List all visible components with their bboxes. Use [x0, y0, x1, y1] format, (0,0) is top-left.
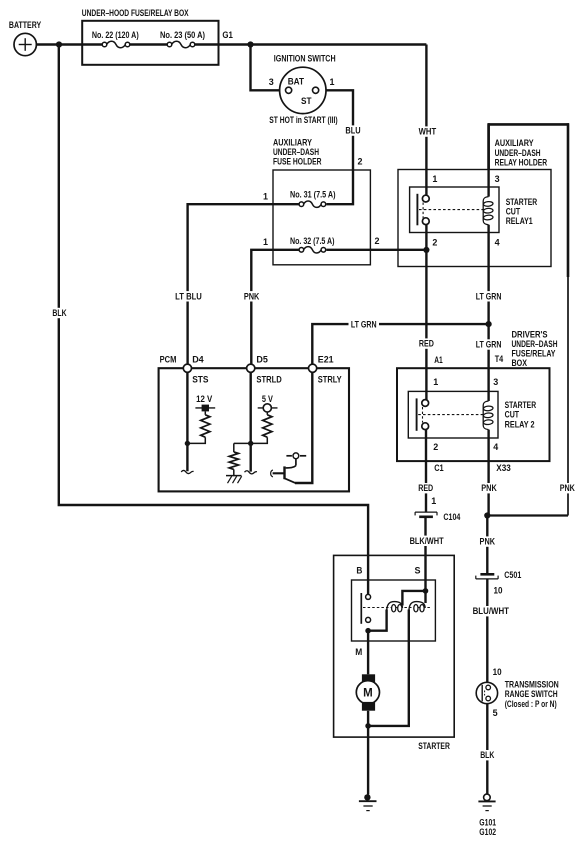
svg-text:PNK: PNK: [560, 483, 575, 494]
svg-text:X33: X33: [496, 463, 511, 474]
svg-text:RED: RED: [419, 339, 434, 350]
svg-text:D5: D5: [256, 354, 268, 365]
svg-text:PNK: PNK: [481, 483, 497, 494]
svg-text:1: 1: [263, 237, 269, 248]
svg-text:No. 22 (120 A): No. 22 (120 A): [92, 30, 139, 40]
svg-text:D4: D4: [192, 354, 204, 365]
svg-text:T4: T4: [495, 354, 504, 365]
svg-text:TRANSMISSION: TRANSMISSION: [505, 679, 559, 689]
svg-text:C501: C501: [504, 570, 521, 581]
svg-text:2: 2: [432, 238, 437, 249]
svg-text:2: 2: [358, 157, 363, 168]
svg-text:LT GRN: LT GRN: [476, 340, 502, 351]
svg-text:ST: ST: [301, 96, 312, 107]
svg-text:1: 1: [431, 496, 437, 507]
svg-text:BOX: BOX: [512, 358, 528, 369]
svg-text:M: M: [363, 688, 373, 700]
svg-text:M: M: [355, 647, 362, 658]
svg-text:ST HOT in START (III): ST HOT in START (III): [269, 115, 337, 126]
svg-text:UNDER–HOOD FUSE/RELAY BOX: UNDER–HOOD FUSE/RELAY BOX: [82, 8, 189, 19]
svg-text:2: 2: [375, 236, 380, 247]
svg-text:4: 4: [495, 238, 501, 249]
svg-text:12 V: 12 V: [196, 394, 213, 404]
svg-text:LT GRN: LT GRN: [476, 291, 502, 302]
svg-text:3: 3: [493, 377, 498, 388]
svg-text:G101: G101: [479, 817, 496, 827]
svg-text:E21: E21: [318, 354, 334, 365]
svg-text:3: 3: [269, 77, 274, 88]
svg-text:A1: A1: [434, 355, 443, 366]
svg-text:STRLD: STRLD: [256, 375, 281, 386]
svg-text:BAT: BAT: [288, 77, 304, 88]
svg-text:BLK: BLK: [480, 750, 494, 761]
svg-text:(Closed : P or N): (Closed : P or N): [505, 699, 557, 709]
svg-text:5: 5: [493, 708, 499, 719]
svg-text:IGNITION SWITCH: IGNITION SWITCH: [274, 54, 336, 65]
svg-text:RANGE SWITCH: RANGE SWITCH: [505, 689, 558, 699]
svg-text:No. 32 (7.5 A): No. 32 (7.5 A): [290, 236, 335, 246]
svg-text:G102: G102: [479, 827, 496, 837]
svg-text:C1: C1: [434, 463, 444, 474]
svg-text:STS: STS: [192, 375, 209, 386]
svg-text:PNK: PNK: [480, 537, 496, 548]
svg-text:C104: C104: [443, 512, 460, 523]
svg-text:1: 1: [433, 377, 439, 388]
svg-text:PNK: PNK: [244, 291, 260, 302]
svg-text:5 V: 5 V: [262, 394, 274, 404]
svg-text:4: 4: [493, 442, 499, 453]
svg-text:RELAY 2: RELAY 2: [505, 419, 535, 430]
svg-text:RELAY1: RELAY1: [506, 216, 533, 227]
svg-text:3: 3: [495, 174, 500, 185]
svg-text:1: 1: [263, 192, 269, 203]
svg-text:10: 10: [494, 585, 503, 596]
svg-text:STRLY: STRLY: [318, 375, 342, 386]
svg-text:G1: G1: [222, 30, 233, 41]
svg-text:BLU: BLU: [345, 126, 360, 137]
svg-text:BATTERY: BATTERY: [9, 20, 42, 31]
svg-text:STARTER: STARTER: [418, 741, 450, 752]
svg-text:10: 10: [493, 667, 502, 678]
svg-text:WHT: WHT: [419, 127, 437, 138]
svg-text:S: S: [415, 566, 422, 577]
svg-text:PCM: PCM: [160, 354, 177, 365]
svg-text:LT GRN: LT GRN: [351, 319, 377, 330]
svg-text:RED: RED: [418, 483, 433, 494]
svg-text:FUSE HOLDER: FUSE HOLDER: [273, 157, 322, 168]
svg-text:BLU/WHT: BLU/WHT: [473, 606, 510, 617]
svg-text:BLK/WHT: BLK/WHT: [410, 536, 444, 547]
svg-text:B: B: [356, 566, 362, 577]
svg-text:2: 2: [433, 442, 438, 453]
svg-text:LT BLU: LT BLU: [175, 291, 202, 302]
svg-text:1: 1: [432, 174, 438, 185]
svg-text:RELAY HOLDER: RELAY HOLDER: [495, 158, 548, 169]
svg-text:No. 31 (7.5 A): No. 31 (7.5 A): [290, 189, 336, 199]
svg-text:1: 1: [330, 77, 336, 88]
svg-text:BLK: BLK: [52, 308, 66, 319]
svg-text:No. 23 (50 A): No. 23 (50 A): [160, 30, 205, 40]
